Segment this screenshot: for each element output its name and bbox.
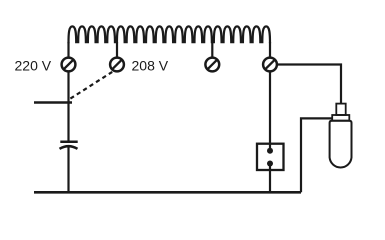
terminal 1 (slashed circle, 220 V tap): [62, 58, 76, 72]
wire (lamp shell return to bottom rail): [301, 118, 332, 192]
wire (coil right end down to tap terminal 4): [269, 42, 271, 57]
wire (terminal 4 down to protector box): [269, 72, 271, 151]
wire (coil to tap terminal 2): [116, 42, 118, 57]
terminal 3 (slashed circle, unused tap): [205, 58, 219, 72]
inductor L1 (tapped autotransformer winding): [69, 26, 271, 43]
wire (left vertical from terminal 1 to capacitor): [67, 72, 69, 141]
terminal 4 (slashed circle, output tap): [263, 58, 277, 72]
terminal 2 (slashed circle, 208 V tap): [110, 58, 124, 72]
wire (bottom rail): [34, 191, 301, 194]
wire (protector box to bottom rail): [269, 164, 271, 193]
svg-text:220 V: 220 V: [15, 58, 52, 74]
svg-text:208 V: 208 V: [132, 58, 169, 74]
wire (coil left end down to tap terminal 1): [67, 42, 69, 57]
wire (terminal 4 to lamp top): [277, 65, 341, 105]
thermal protector P1 (box with two contact dots): [257, 144, 284, 170]
wire (supply input line, left): [34, 101, 72, 104]
wire (capacitor to bottom rail): [67, 148, 69, 193]
switch S1 (dashed selector link to 208 V tap): [70, 72, 112, 99]
lamp DS1 (discharge lamp): [330, 104, 352, 168]
wire (coil to tap terminal 3): [211, 42, 213, 57]
capacitor C1: [60, 142, 78, 149]
